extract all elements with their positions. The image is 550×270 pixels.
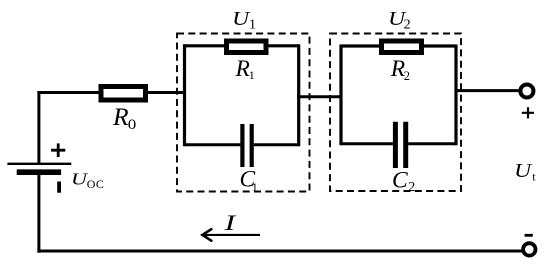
RC2 loop bottom wire right segment [408,142,456,145]
wire: R0 to RC block 1 [146,91,185,94]
capacitor C1 right plate [250,124,254,167]
battery minus mark [57,182,61,193]
resistor R1 [227,41,267,53]
svg-text:0: 0 [128,117,137,133]
wire: left rail upper vertical [37,91,40,164]
dashed box U_1 [177,34,310,192]
svg-text:R: R [235,56,250,82]
current arrow I shaft [204,234,261,236]
voltage source U_OC battery short thick plate [17,169,61,175]
capacitor C2 right plate [403,122,408,168]
RC2 loop bottom wire left segment [341,142,393,145]
svg-text:1: 1 [252,180,258,194]
svg-text:2: 2 [408,180,415,195]
RC1 loop left vertical wire [183,44,186,146]
svg-text:I: I [223,210,237,235]
dashed box U_2 [330,34,461,192]
RC2 loop right vertical wire [454,45,457,146]
RC2 loop top wire [341,44,456,47]
svg-text:2: 2 [404,69,410,83]
negative terminal circle [523,243,535,255]
svg-text:2: 2 [404,18,411,33]
wire: RC2 to positive terminal [456,89,521,92]
RC1 loop right vertical wire [297,44,300,146]
voltage source U_OC battery long plate [7,163,71,165]
battery plus mark [51,143,65,157]
resistor R2 [382,41,422,53]
svg-text:1: 1 [249,18,256,33]
current arrow I head [202,229,211,241]
negative terminal minus mark [525,234,533,237]
svg-text:t: t [532,169,536,183]
svg-text:1: 1 [249,68,255,82]
capacitor C2 left plate [393,122,398,168]
wire: left rail lower vertical [37,175,40,253]
svg-text:OC: OC [87,177,104,191]
positive terminal plus mark [522,107,534,118]
svg-text:R: R [112,102,129,131]
RC1 loop bottom wire left segment [185,143,241,146]
svg-text:U: U [514,160,533,182]
wire: RC1 to RC2 [297,95,343,98]
RC1 loop bottom wire right segment [254,143,299,146]
capacitor C1 left plate [240,124,244,167]
positive terminal circle [520,84,533,97]
wire: top-left horizontal from left rail to R0 [37,91,101,94]
svg-text:C: C [392,167,408,193]
wire: bottom horizontal return [37,250,523,253]
RC2 loop left vertical wire [339,45,342,146]
resistor R0 [101,87,146,101]
RC1 loop top wire [185,44,299,47]
